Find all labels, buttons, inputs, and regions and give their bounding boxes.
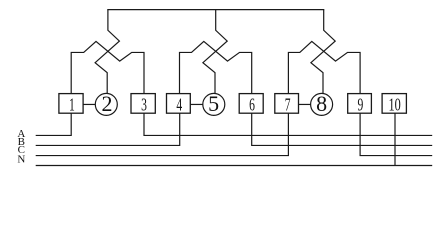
terminal 7 bbox=[275, 94, 299, 115]
wire: phase C line to terminal 7 bbox=[36, 113, 289, 155]
wire: top bus drop to terminal 5 bbox=[203, 10, 227, 94]
wire: phase B line to terminal 4 bbox=[36, 113, 180, 145]
terminal 1 bbox=[59, 94, 83, 115]
terminal 6 bbox=[239, 94, 263, 115]
terminal 10 (neutral) bbox=[382, 94, 406, 115]
wire: terminal 4 to terminal 6 crossover bbox=[180, 41, 252, 93]
svg-text:2: 2 bbox=[102, 91, 113, 116]
wire: top bus drop to terminal 8 bbox=[311, 10, 335, 94]
svg-text:N: N bbox=[17, 154, 25, 166]
wire: terminal 1 to terminal 3 crossover bbox=[71, 41, 144, 93]
wire: link terminal 7 to terminal 8 bbox=[298, 103, 310, 105]
wire: link terminal 1 to terminal 2 bbox=[83, 103, 95, 105]
terminal 4 bbox=[167, 94, 191, 115]
svg-text:5: 5 bbox=[208, 91, 219, 116]
wire: phase A line to terminal 1 bbox=[36, 113, 71, 135]
svg-text:10: 10 bbox=[388, 94, 400, 114]
terminal 2 (voltage) bbox=[95, 91, 117, 116]
wire: neutral line N bbox=[36, 165, 433, 167]
svg-text:3: 3 bbox=[141, 94, 147, 114]
wire: terminal 10 to neutral line bbox=[394, 113, 396, 165]
svg-text:8: 8 bbox=[316, 91, 327, 116]
terminal 3 bbox=[131, 94, 155, 115]
terminal 5 (voltage) bbox=[203, 91, 225, 116]
terminal 8 (voltage) bbox=[311, 91, 333, 116]
wire: terminal 6 to load line B bbox=[252, 113, 433, 145]
svg-text:1: 1 bbox=[69, 94, 75, 114]
svg-text:7: 7 bbox=[285, 94, 291, 114]
top bus bbox=[107, 9, 324, 11]
wire: top bus drop to terminal 2 bbox=[95, 10, 119, 94]
wire: link terminal 4 to terminal 5 bbox=[190, 103, 203, 105]
wire: terminal 9 to load line C bbox=[360, 113, 432, 155]
wire: terminal 3 to load line A bbox=[144, 113, 432, 135]
terminal 9 bbox=[348, 94, 372, 115]
svg-text:9: 9 bbox=[358, 94, 364, 114]
svg-text:6: 6 bbox=[249, 94, 255, 114]
wire: terminal 7 to terminal 9 crossover bbox=[288, 41, 360, 93]
svg-text:4: 4 bbox=[176, 94, 182, 114]
